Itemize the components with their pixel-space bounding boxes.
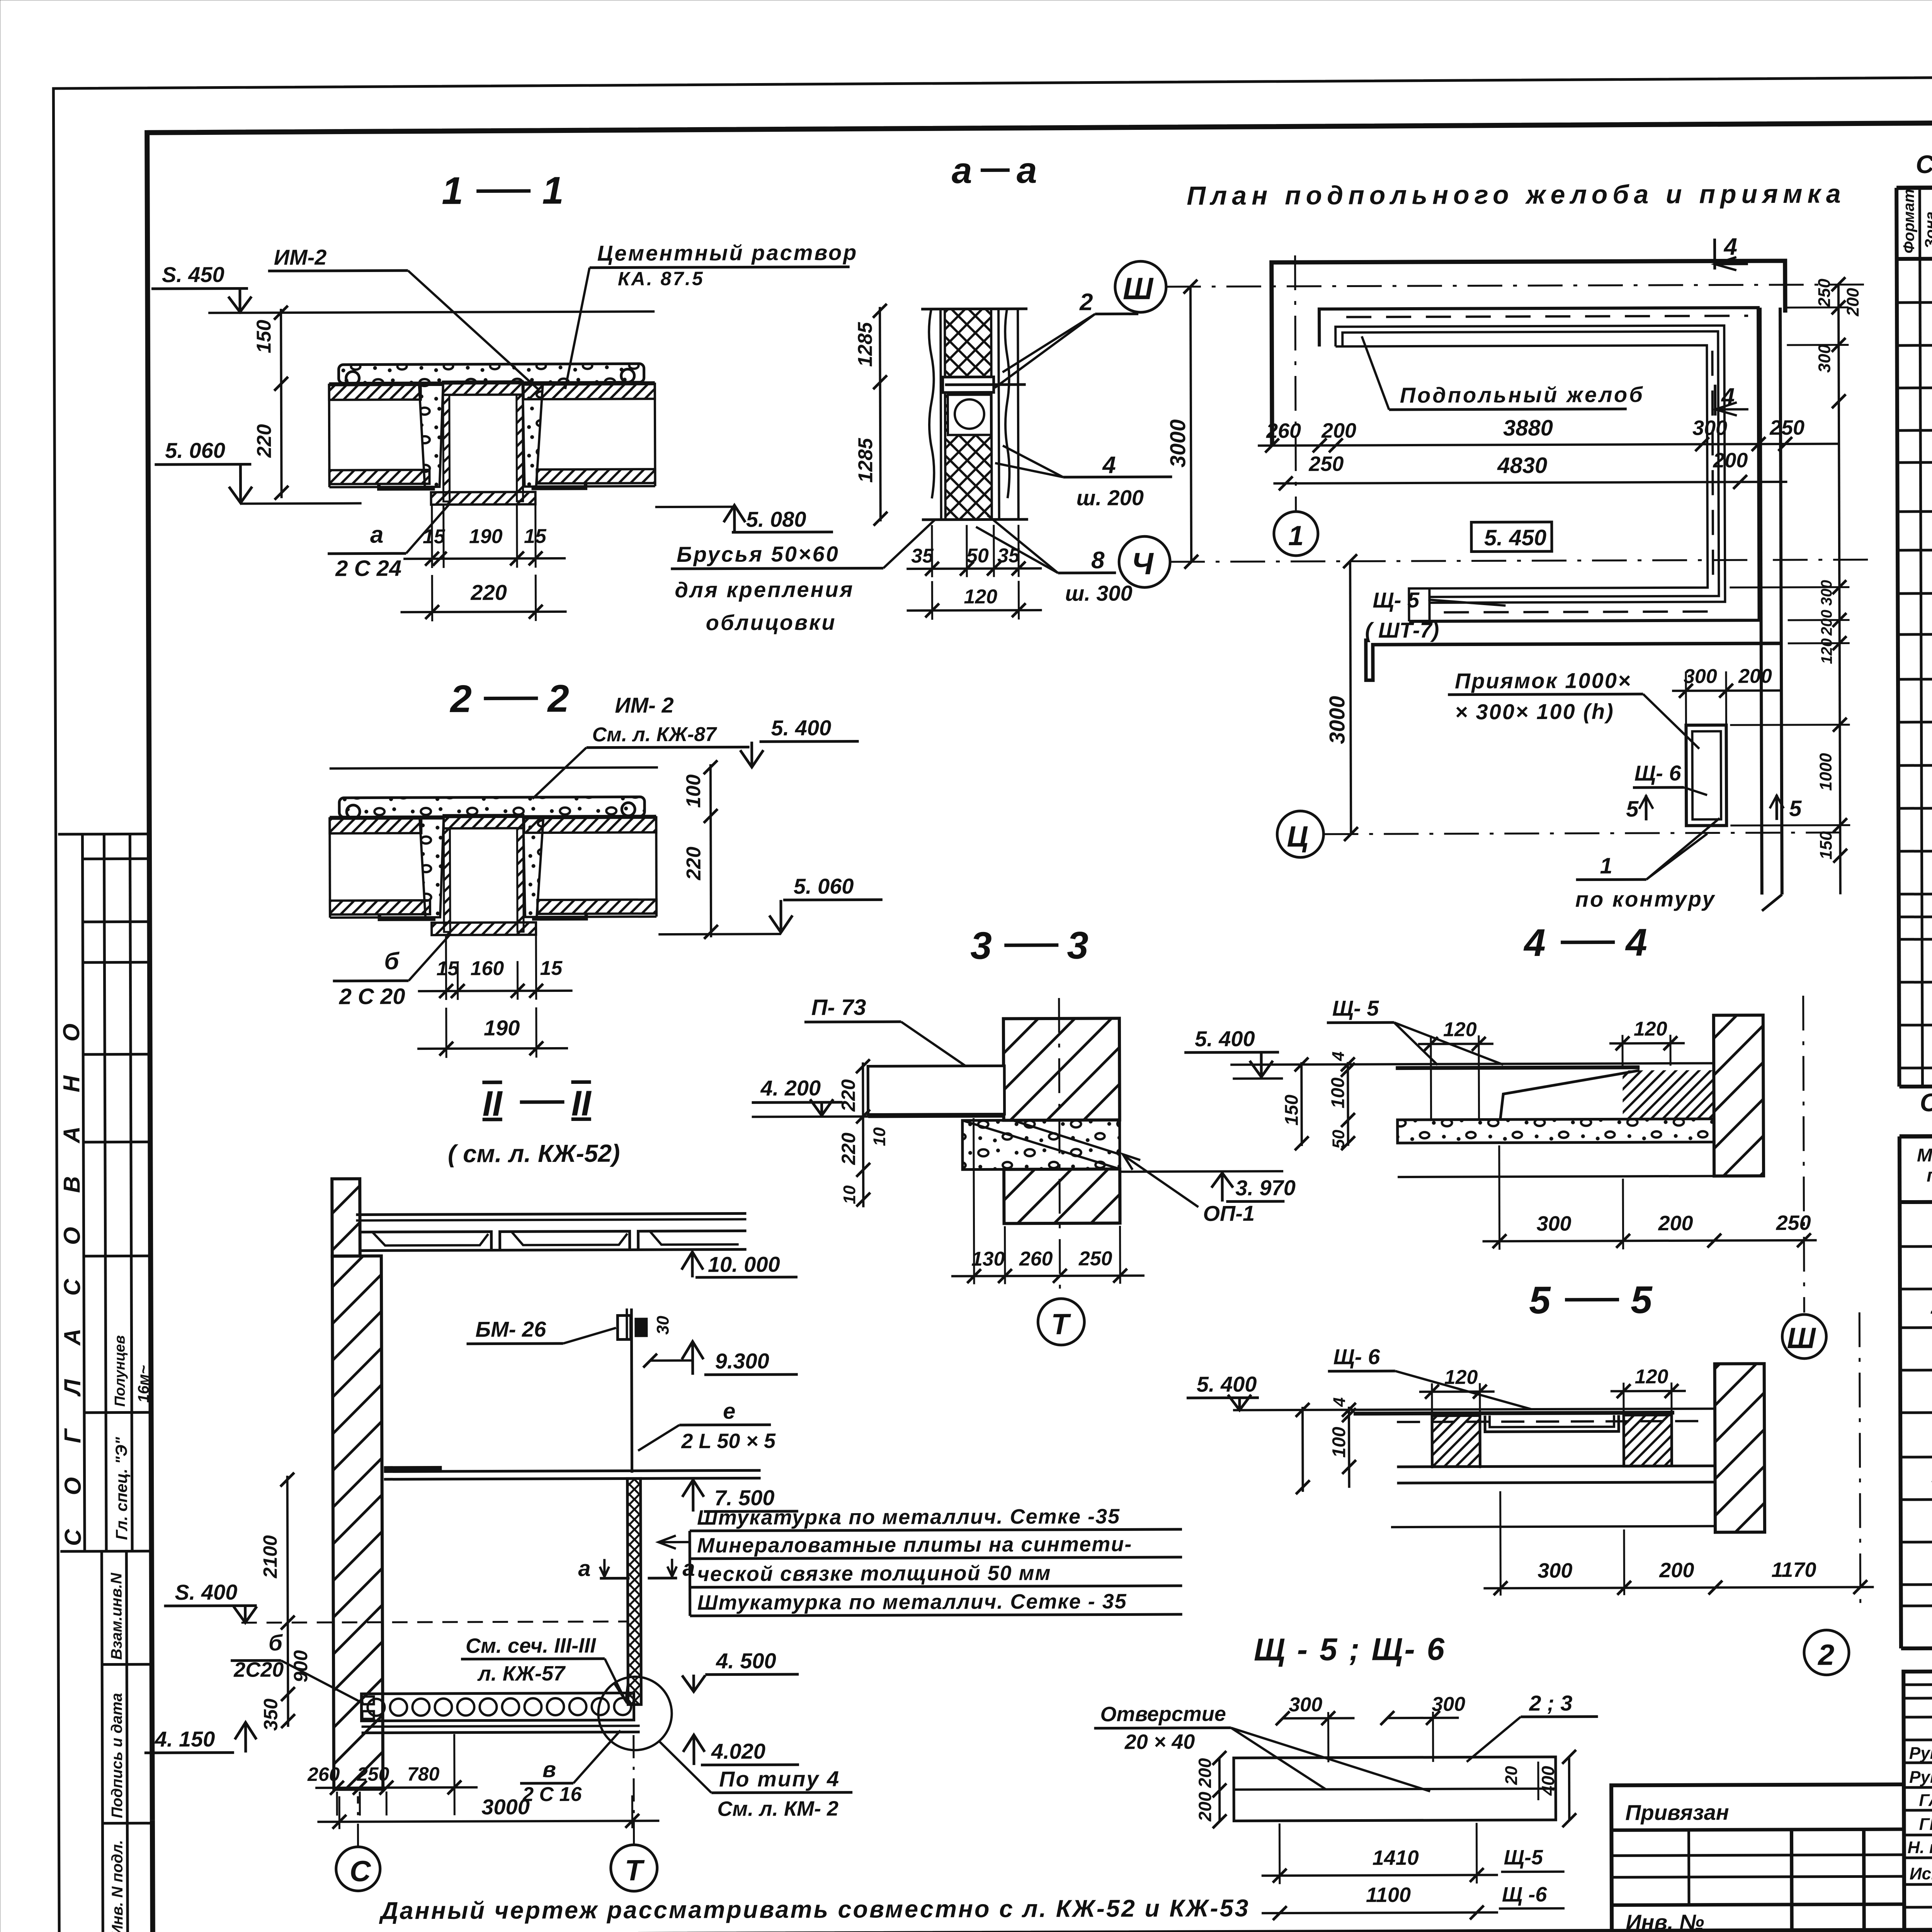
dim 3000 left lower: [1350, 561, 1351, 834]
dims left rotated: [863, 1062, 863, 1207]
top line: [1233, 1409, 1715, 1410]
svg-text:л. КЖ-57: л. КЖ-57: [477, 1662, 566, 1685]
bottom dims 260 250 780: [336, 1792, 338, 1816]
dims 200 200 left: [1218, 1758, 1221, 1821]
axis 1 vertical: [1295, 255, 1296, 510]
svg-text:5: 5: [1631, 1278, 1653, 1321]
svg-text:3880: 3880: [1503, 415, 1553, 440]
steel plate: [1396, 1067, 1639, 1068]
svg-text:250: 250: [1815, 279, 1834, 308]
svg-text:Привязан: Привязан: [1625, 1800, 1729, 1825]
dim 300 top right: [1432, 1712, 1434, 1762]
svg-text:150: 150: [1816, 831, 1835, 860]
svg-text:100: 100: [1328, 1077, 1348, 1109]
vertical dims 4 100: [1348, 1407, 1350, 1488]
svg-text:120: 120: [1444, 1366, 1478, 1388]
svg-text:120: 120: [964, 585, 997, 608]
concrete base: [1398, 1119, 1714, 1143]
svg-text:ческой связке толщиной 50 м: ческой связке толщиной 50 мм: [697, 1561, 1051, 1586]
svg-text:120: 120: [1635, 1366, 1668, 1388]
svg-text:1000: 1000: [1816, 753, 1835, 791]
steel plate: [1354, 1413, 1674, 1414]
svg-text:× 300× 100 (h): × 300× 100 (h): [1455, 699, 1614, 724]
svg-text:2: 2: [1817, 1639, 1835, 1672]
vertical dim 150/220: [281, 309, 282, 498]
svg-text:50: 50: [966, 544, 989, 567]
svg-text:Штукатурка по металлич. Сет: Штукатурка по металлич. Сетке -35: [697, 1505, 1120, 1529]
inner round detail: [948, 395, 991, 435]
bottom dims 300 200 250: [1498, 1145, 1500, 1250]
bottom dims 300 200 1170: [1499, 1491, 1502, 1595]
svg-text:( ШТ-7): ( ШТ-7): [1365, 618, 1439, 643]
svg-text:50: 50: [1329, 1129, 1348, 1149]
svg-text:Гл. спец. "Э": Гл. спец. "Э": [112, 1437, 131, 1540]
svg-text:5: 5: [1626, 796, 1639, 821]
svg-text:ГАП: ГАП: [1919, 1791, 1932, 1810]
svg-text:5. 450: 5. 450: [1484, 525, 1546, 551]
axis circles C T: [336, 1847, 380, 1891]
svg-text:( см. л. КЖ-52): ( см. л. КЖ-52): [448, 1139, 620, 1167]
svg-text:2 ; 3: 2 ; 3: [1529, 1691, 1572, 1715]
wall right: [1715, 1364, 1765, 1532]
svg-text:СОГЛАСОВАНО: СОГЛАСОВАНО: [58, 990, 86, 1546]
svg-text:ГИП: ГИП: [1919, 1815, 1932, 1834]
svg-text:Ц: Ц: [1287, 820, 1308, 853]
svg-text:15: 15: [524, 525, 547, 548]
dim 1410 Щ-5: [1279, 1823, 1281, 1884]
svg-text:См. л. КЖ-87: См. л. КЖ-87: [592, 723, 717, 746]
signature table: [1903, 1671, 1932, 1930]
svg-text:5: 5: [1529, 1279, 1551, 1322]
wall upper: [1003, 1018, 1120, 1120]
level line 5.450: [208, 311, 655, 313]
svg-text:Подпись и дата: Подпись и дата: [108, 1693, 126, 1818]
svg-text:Щ- 5: Щ- 5: [1372, 588, 1420, 612]
top level line: [330, 767, 658, 769]
section mark 4 top: [1713, 239, 1716, 270]
svg-text:150: 150: [253, 320, 275, 353]
angle brackets: [379, 483, 435, 489]
axis vertical right: [1859, 1312, 1860, 1614]
svg-text:35: 35: [911, 545, 934, 567]
dashed hidden line: [1397, 1421, 1707, 1422]
dim 1100 Щ-6: [1262, 1912, 1498, 1913]
steel I-beam: [443, 381, 523, 395]
svg-text:Штукатурка по металлич. Сет: Штукатурка по металлич. Сетке - 35: [697, 1590, 1127, 1614]
dim 190: [445, 1008, 447, 1058]
svg-text:Ш: Ш: [1787, 1322, 1816, 1355]
svg-text:Рук АБ-1: Рук АБ-1: [1909, 1743, 1932, 1763]
svg-text:Т: Т: [625, 1854, 645, 1887]
svg-text:II: II: [482, 1084, 503, 1123]
outer page border: [53, 73, 1932, 410]
svg-text:400: 400: [1538, 1766, 1558, 1796]
svg-text:780: 780: [407, 1763, 440, 1785]
small rebar marks left: [362, 1696, 374, 1704]
svg-text:1170: 1170: [1771, 1558, 1816, 1582]
svg-text:4: 4: [1523, 921, 1546, 964]
svg-text:2 С 16: 2 С 16: [522, 1783, 582, 1806]
lower hatched band: [329, 470, 429, 484]
svg-text:1: 1: [542, 169, 564, 212]
svg-text:ОП-1: ОП-1: [1203, 1201, 1255, 1225]
privyazan block: [1611, 1784, 1904, 1931]
svg-text:КА. 87.5: КА. 87.5: [618, 268, 704, 290]
dim 4830: [1273, 482, 1787, 483]
top line: [1230, 1063, 1714, 1065]
slab edges: [328, 384, 331, 487]
svg-text:Щ- 6: Щ- 6: [1333, 1344, 1380, 1369]
extension lines to right dim column: [1787, 306, 1849, 309]
plate rectangle: [1234, 1757, 1556, 1821]
svg-text:120: 120: [1634, 1018, 1667, 1040]
svg-text:Данный чертеж рассматривать: Данный чертеж рассматривать совместно с …: [379, 1895, 1250, 1924]
svg-text:250: 250: [1776, 1211, 1811, 1235]
hanging wall line with hook: [1366, 637, 1781, 680]
dims row 3880: [1258, 444, 1839, 446]
svg-text:120: 120: [1443, 1018, 1477, 1041]
svg-text:Формат: Формат: [1900, 189, 1918, 253]
svg-text:15: 15: [540, 957, 563, 980]
svg-text:300: 300: [1537, 1559, 1572, 1582]
svg-text:По типу 4: По типу 4: [719, 1767, 840, 1791]
concrete topping slab: [339, 364, 644, 383]
svg-text:220: 220: [253, 424, 276, 458]
svg-text:300: 300: [1536, 1212, 1571, 1235]
floor slab with circles: [361, 1693, 634, 1721]
svg-text:Цементный раствор: Цементный раствор: [597, 240, 858, 265]
wall layers: [921, 308, 1027, 311]
svg-text:300: 300: [1815, 344, 1834, 373]
svg-text:а: а: [370, 521, 384, 548]
svg-text:ш. 300: ш. 300: [1065, 581, 1133, 605]
svg-text:2100: 2100: [259, 1535, 281, 1579]
dim 3000: [338, 1796, 340, 1829]
svg-text:4: 4: [1330, 1397, 1349, 1407]
svg-text:200: 200: [1321, 419, 1356, 442]
svg-text:Щ - 5 ; Щ- 6: Щ - 5 ; Щ- 6: [1254, 1632, 1446, 1668]
vertical dim 100/220: [711, 764, 711, 937]
svg-text:300: 300: [1432, 1693, 1465, 1716]
svg-text:3000: 3000: [481, 1794, 530, 1819]
svg-text:16м~: 16м~: [135, 1365, 152, 1403]
svg-text:Спецификация стали на эл: Спецификация стали на элемент: [1920, 1087, 1932, 1117]
hatched zone near wall: [1622, 1070, 1714, 1119]
svg-text:ИМ- 2: ИМ- 2: [615, 693, 673, 717]
svg-text:Брусья 50×60: Брусья 50×60: [677, 542, 840, 566]
svg-text:3. 970: 3. 970: [1235, 1175, 1296, 1200]
svg-text:4. 500: 4. 500: [716, 1648, 776, 1673]
svg-text:2: 2: [1930, 1296, 1932, 1318]
dim 15 190 15: [431, 505, 433, 568]
svg-text:БМ- 26: БМ- 26: [475, 1317, 546, 1342]
svg-text:300: 300: [1692, 416, 1727, 439]
svg-text:Ш: Ш: [1123, 271, 1154, 306]
svg-text:3000: 3000: [1325, 696, 1349, 744]
svg-text:4: 4: [1721, 383, 1735, 410]
svg-text:2 L 50 × 5: 2 L 50 × 5: [681, 1429, 776, 1453]
dim 120 120: [1431, 1383, 1433, 1468]
svg-text:260: 260: [1266, 419, 1301, 442]
svg-text:2: 2: [449, 677, 472, 721]
dim 120: [931, 581, 933, 620]
svg-text:4. 150: 4. 150: [155, 1727, 215, 1751]
svg-text:1: 1: [442, 169, 463, 213]
svg-text:Минераловатные плиты на син: Минераловатные плиты на синтети-: [697, 1532, 1132, 1557]
dims 20 400 right: [1537, 1762, 1539, 1800]
svg-text:Рук КБ-1: Рук КБ-1: [1909, 1767, 1932, 1787]
svg-text:4.020: 4.020: [711, 1739, 765, 1763]
svg-text:4: 4: [1723, 233, 1737, 260]
svg-text:Щ -6: Щ -6: [1502, 1883, 1548, 1906]
svg-text:200: 200: [1818, 610, 1835, 636]
svg-text:350: 350: [260, 1699, 281, 1731]
wall right: [1714, 1015, 1764, 1176]
svg-text:150: 150: [1281, 1095, 1302, 1126]
svg-text:300: 300: [1289, 1694, 1322, 1716]
wall lower: [1004, 1169, 1120, 1223]
svg-text:Взам.инв.N: Взам.инв.N: [108, 1572, 125, 1660]
svg-text:4: 4: [1329, 1051, 1348, 1061]
svg-text:15: 15: [423, 526, 446, 548]
concrete topping: [339, 797, 645, 817]
svg-text:2 С 24: 2 С 24: [335, 556, 401, 581]
svg-text:190: 190: [469, 525, 503, 548]
svg-text:260: 260: [1019, 1248, 1053, 1270]
T-bracket detail: [943, 377, 994, 392]
BM-26 bracket: [617, 1315, 631, 1339]
svg-text:5. 400: 5. 400: [771, 716, 831, 740]
outer contour: [1272, 261, 1786, 446]
section mark 4 lower: [1714, 385, 1716, 416]
svg-text:260: 260: [307, 1764, 340, 1785]
svg-text:200: 200: [1844, 287, 1862, 316]
svg-text:Марка: Марка: [1917, 1145, 1932, 1165]
svg-text:160: 160: [470, 957, 504, 980]
dim 1285/1285 right: [880, 307, 881, 521]
level 3.970: [1120, 1171, 1283, 1172]
svg-text:S. 400: S. 400: [175, 1580, 237, 1605]
svg-text:2 С 20: 2 С 20: [339, 984, 405, 1009]
dim 120 120: [1430, 1036, 1432, 1121]
svg-text:Т: Т: [1051, 1308, 1071, 1341]
dim 300 top left: [1327, 1712, 1329, 1762]
svg-text:1: 1: [1288, 520, 1304, 551]
ceiling slabs band: [356, 1213, 746, 1214]
svg-text:4. 200: 4. 200: [760, 1076, 821, 1100]
channel inner: [1485, 1415, 1619, 1432]
svg-text:ИМ-2: ИМ-2: [274, 245, 327, 269]
svg-text:200: 200: [1195, 1758, 1215, 1788]
svg-text:1410: 1410: [1372, 1846, 1419, 1869]
dim 35 50 35: [931, 525, 933, 577]
svg-text:Приямок 1000×: Приямок 1000×: [1455, 668, 1632, 693]
monolithic belt: [963, 1120, 1120, 1169]
svg-text:10. 000: 10. 000: [708, 1252, 780, 1277]
axis circle Ш: [1115, 261, 1166, 312]
svg-text:2: 2: [547, 677, 569, 720]
svg-text:II: II: [571, 1084, 592, 1123]
svg-text:250: 250: [357, 1763, 389, 1785]
svg-text:5. 080: 5. 080: [746, 507, 806, 531]
axis T: [1059, 998, 1060, 1298]
wall double line right: [1760, 308, 1762, 895]
vertical dims 4/100/150/50: [1347, 1062, 1349, 1146]
svg-text:300: 300: [1684, 665, 1717, 688]
base lines: [1397, 1466, 1715, 1467]
slab P-73: [868, 1066, 1004, 1114]
svg-text:250: 250: [1308, 452, 1344, 476]
svg-text:Зона: Зона: [1922, 211, 1932, 249]
channel inner edges: [1335, 345, 1708, 622]
svg-text:9.300: 9.300: [715, 1349, 769, 1373]
channel top run inner double: [1335, 325, 1725, 603]
concrete rib right: [523, 384, 543, 486]
svg-text:3: 3: [1067, 924, 1088, 967]
svg-text:в: в: [543, 1757, 556, 1782]
svg-text:Отверстие: Отверстие: [1100, 1702, 1226, 1726]
holes: [1320, 1786, 1337, 1794]
svg-text:П- 73: П- 73: [811, 995, 866, 1020]
hatched screed band: [329, 385, 421, 400]
svg-text:Ч: Ч: [1131, 546, 1154, 581]
svg-text:220: 220: [838, 1133, 859, 1165]
svg-text:а: а: [578, 1556, 590, 1581]
svg-text:Полунцев: Полунцев: [112, 1335, 128, 1407]
5.450 box: [1471, 522, 1552, 552]
axis circle Ч: [1119, 536, 1170, 587]
dim 15 160 15: [445, 936, 447, 1000]
svg-text:1100: 1100: [1366, 1883, 1411, 1906]
svg-text:С: С: [350, 1855, 371, 1888]
svg-text:Щ-5: Щ-5: [1504, 1846, 1544, 1869]
svg-text:200: 200: [1713, 449, 1748, 472]
svg-text:См. сеч. III-III: См. сеч. III-III: [466, 1634, 596, 1658]
svg-text:1285: 1285: [854, 438, 877, 483]
svg-text:4830: 4830: [1497, 453, 1547, 478]
svg-text:б: б: [269, 1630, 283, 1655]
svg-text:300: 300: [1818, 580, 1835, 606]
axis Ц: [1277, 811, 1323, 857]
svg-text:Инв. N подл.: Инв. N подл.: [109, 1840, 126, 1932]
svg-text:Исполн.: Исполн.: [1910, 1864, 1932, 1883]
beam at 7.500: [384, 1470, 761, 1471]
svg-text:20: 20: [1502, 1766, 1521, 1786]
svg-text:200: 200: [1738, 665, 1772, 687]
bent anchor: [1500, 1070, 1639, 1119]
concrete rib left: [419, 385, 444, 487]
svg-text:100: 100: [1329, 1427, 1349, 1458]
svg-text:250: 250: [1078, 1247, 1112, 1270]
svg-text:5. 400: 5. 400: [1195, 1026, 1255, 1051]
svg-text:поз.: поз.: [1927, 1165, 1932, 1186]
svg-text:5: 5: [1789, 796, 1802, 821]
svg-text:Н. контр: Н. контр: [1908, 1838, 1932, 1857]
svg-text:а: а: [682, 1556, 695, 1581]
svg-text:20 × 40: 20 × 40: [1124, 1730, 1195, 1754]
svg-text:100: 100: [682, 774, 705, 808]
svg-text:Щ- 6: Щ- 6: [1634, 761, 1682, 785]
svg-text:220: 220: [682, 847, 705, 881]
svg-text:Спецификация расхода материа: Спецификация расхода материалов на элеме…: [1916, 148, 1932, 179]
hatched blocks: [1432, 1415, 1480, 1466]
bottom dims 130 260 250: [974, 1118, 974, 1284]
svg-text:S. 450: S. 450: [162, 262, 224, 287]
svg-text:200: 200: [1195, 1791, 1215, 1821]
svg-text:б: б: [384, 948, 400, 975]
svg-text:4: 4: [1625, 921, 1647, 964]
wall column upper: [332, 1179, 360, 1256]
detail circle: [598, 1677, 672, 1750]
svg-text:10: 10: [840, 1185, 859, 1204]
wall column lower: [332, 1256, 383, 1789]
pit (priyamok): [1686, 725, 1726, 825]
svg-text:5. 060: 5. 060: [794, 874, 854, 898]
svg-text:3: 3: [970, 924, 992, 967]
dim 300 200 above pit: [1685, 672, 1687, 726]
svg-text:200: 200: [1658, 1212, 1693, 1235]
svg-text:35: 35: [997, 544, 1020, 567]
level dash line 2100: [241, 1621, 628, 1622]
svg-text:130: 130: [971, 1248, 1005, 1270]
svg-text:по контуру: по контуру: [1575, 887, 1716, 912]
svg-text:Подпольный желоб: Подпольный желоб: [1400, 382, 1645, 407]
svg-text:План подпольного желоба и: План подпольного желоба и приямка: [1187, 179, 1846, 210]
hanging wall cross-hatched: [628, 1478, 641, 1704]
svg-text:250: 250: [1769, 416, 1804, 439]
bottom boundary: [1398, 1176, 1714, 1177]
right rotated dims: [1838, 284, 1840, 895]
svg-text:190: 190: [484, 1015, 520, 1040]
svg-text:1285: 1285: [854, 322, 876, 367]
ceiling line: [330, 486, 435, 488]
svg-text:ш. 200: ш. 200: [1077, 485, 1144, 510]
axis Sh: [1803, 996, 1804, 1313]
svg-text:е: е: [723, 1399, 735, 1424]
svg-text:а: а: [952, 150, 972, 191]
svg-text:2: 2: [1079, 289, 1093, 316]
dim 2100 900 350: [287, 1476, 288, 1727]
svg-text:120: 120: [1818, 638, 1835, 664]
svg-text:10: 10: [870, 1127, 889, 1146]
channel top run outer: [1319, 308, 1759, 622]
dim 3000 vertical: [1190, 287, 1191, 562]
channel dashed centerlines: [1346, 316, 1748, 317]
svg-text:для крепления: для крепления: [675, 577, 854, 602]
svg-text:1: 1: [1600, 853, 1612, 878]
svg-text:30: 30: [653, 1316, 672, 1335]
svg-text:220: 220: [470, 580, 507, 604]
svg-text:8: 8: [1091, 547, 1105, 574]
svg-text:См. л. КМ- 2: См. л. КМ- 2: [717, 1797, 838, 1821]
svg-text:Инв. №: Инв. №: [1626, 1910, 1704, 1932]
dim 220: [431, 575, 433, 621]
svg-text:220: 220: [837, 1079, 859, 1112]
svg-text:15: 15: [436, 957, 459, 980]
svg-text:облицовки: облицовки: [706, 610, 837, 635]
svg-text:а: а: [1017, 150, 1037, 191]
svg-text:5. 060: 5. 060: [165, 438, 225, 463]
svg-text:4: 4: [1102, 452, 1116, 478]
svg-text:5. 400: 5. 400: [1197, 1372, 1257, 1396]
svg-text:Щ- 5: Щ- 5: [1332, 996, 1379, 1020]
svg-text:3000: 3000: [1165, 419, 1190, 468]
svg-text:200: 200: [1659, 1559, 1694, 1582]
